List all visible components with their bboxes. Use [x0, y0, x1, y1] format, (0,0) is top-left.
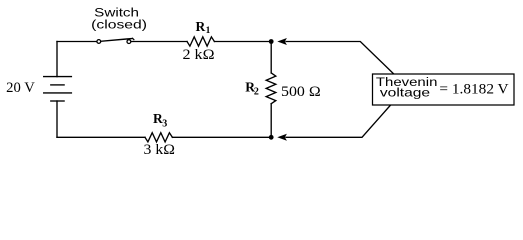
svg-text:3: 3: [162, 119, 167, 130]
svg-text:3 kΩ: 3 kΩ: [144, 142, 175, 158]
svg-text:2 kΩ: 2 kΩ: [183, 47, 215, 63]
svg-text:500 Ω: 500 Ω: [281, 84, 321, 100]
svg-text:2: 2: [254, 87, 259, 98]
svg-text:(closed): (closed): [91, 17, 147, 31]
svg-text:= 1.8182 V: = 1.8182 V: [439, 82, 509, 98]
svg-text:20 V: 20 V: [6, 80, 35, 96]
svg-text:1: 1: [206, 26, 211, 36]
svg-text:voltage: voltage: [380, 86, 430, 100]
svg-text:R: R: [196, 19, 206, 34]
